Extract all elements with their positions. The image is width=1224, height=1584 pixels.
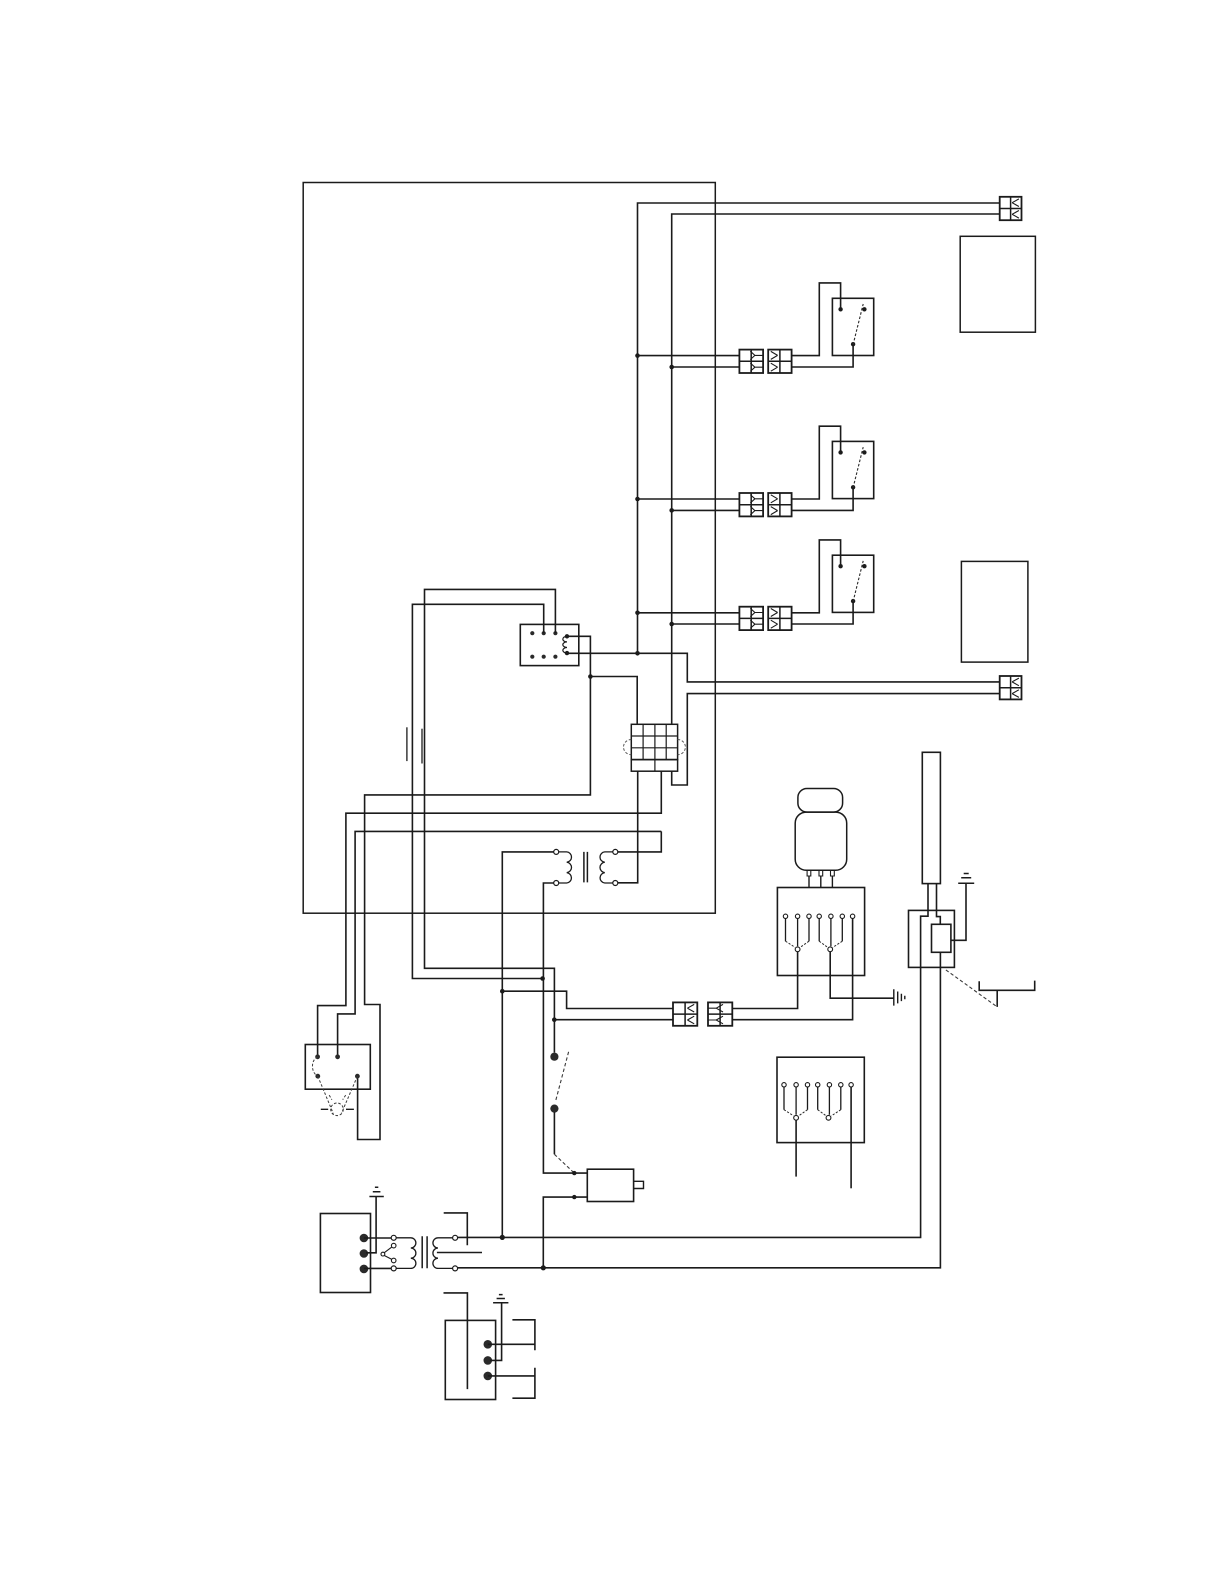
- ground GD4 (rotated): [894, 989, 905, 1005]
- wire switch row 2 feed lower: [672, 509, 740, 511]
- box B3 outer: [909, 910, 955, 967]
- switch SW3 box: [832, 555, 873, 612]
- wire T1 left-bottom down (to solenoid top): [543, 883, 587, 1173]
- switch SW1 lever: [853, 304, 863, 345]
- module box M1 (top right): [960, 236, 1035, 332]
- wire transformer RT to horn TM: [338, 831, 662, 1054]
- wire B1 fork-right to ground: [830, 952, 894, 999]
- block B2 box: [777, 1057, 864, 1142]
- wire B2 pin7 stub: [850, 1087, 852, 1188]
- horn cone left line: [318, 1076, 334, 1113]
- relay K2 pins: [530, 631, 534, 635]
- wire ignition feed branch to C6 upper: [502, 991, 673, 1008]
- shield mark a: [406, 727, 408, 761]
- wire switch row 1 feed lower: [672, 366, 740, 368]
- wire bus A (to connector C1 upper pin): [638, 203, 1000, 653]
- wire row 3 to switch common: [792, 601, 854, 624]
- distributor cap box: [445, 1320, 495, 1399]
- node junction coil + feed: [500, 1235, 505, 1240]
- shield mark b: [421, 729, 423, 764]
- breaker points pivot: [381, 1252, 385, 1256]
- node junction bus A row 3: [635, 611, 640, 616]
- wiring harness boundary box: [303, 183, 715, 914]
- wire row 1 to switch top: [792, 283, 841, 356]
- wire row 2 to switch top: [792, 426, 841, 499]
- pedal bracket: [979, 981, 1034, 1007]
- flasher F1 body: [795, 812, 847, 870]
- ignition coil secondary winding: [433, 1238, 453, 1269]
- transformer T1 left winding: [559, 852, 572, 883]
- distributor terminals: [484, 1340, 493, 1349]
- transformer T1 terminals: [554, 849, 559, 854]
- node junction key switch branch: [552, 1017, 557, 1022]
- node junction coil - feed: [541, 1265, 546, 1270]
- module box M2 (mid right): [961, 561, 1028, 662]
- wire S4 bottom to solenoid node: [553, 1112, 555, 1154]
- switch SW3 lever: [853, 561, 863, 602]
- wire W-B (relay pin to coil circuit): [412, 604, 543, 978]
- wire grid mid bottom (to horn TL): [318, 771, 662, 1054]
- wire key switch branch to C6 lower: [554, 1019, 673, 1021]
- wire grid col1 bottom to ignition transformer: [618, 771, 638, 883]
- wire switch row 2 feed upper: [638, 498, 740, 500]
- horn relay H1 box: [305, 1045, 370, 1090]
- node junction bus A row 2: [635, 497, 640, 502]
- horn relay coil arc: [312, 1057, 317, 1076]
- connector C3b (male half): [768, 607, 791, 630]
- wire R1 right leg: [937, 884, 941, 925]
- horn cone right line: [342, 1076, 358, 1113]
- connector C1b (male half): [768, 350, 791, 373]
- distributor rotor lead: [444, 1293, 468, 1389]
- wire battery top to points: [364, 1237, 391, 1239]
- wire row 3 to switch top: [792, 540, 841, 613]
- block B1 box: [777, 888, 864, 976]
- wire GD2 stem: [490, 1303, 502, 1361]
- connector C6a (2x2 chevron): [673, 1002, 697, 1025]
- wire B3 resistor out to coil -: [458, 952, 941, 1268]
- ground GD2: [493, 1295, 508, 1303]
- switch SW3 terminals: [838, 564, 842, 568]
- block B2 fork right: [818, 1087, 841, 1115]
- connector C5 (mid right, 2x2 chevron): [1000, 676, 1022, 699]
- block B2 pin circles: [782, 1083, 786, 1087]
- node junction bus A / coil bottom: [635, 651, 640, 656]
- ignition coil primary winding: [396, 1238, 416, 1269]
- wire switch row 3 feed upper: [638, 612, 740, 614]
- node junction ignition feed: [500, 989, 505, 994]
- connector C1 (top right pair half, 2x2 chevron): [1000, 197, 1022, 220]
- wire W-A (relay pin to key switch): [425, 589, 556, 1052]
- battery BAT box: [320, 1214, 370, 1293]
- battery terminals: [360, 1234, 369, 1243]
- node junction W-B: [540, 976, 545, 981]
- spark plug bracket 1: [512, 1320, 535, 1350]
- block B1 pin circles: [783, 914, 787, 918]
- switch SW1 box: [832, 298, 873, 355]
- wire row 1 to switch common: [792, 344, 854, 367]
- node junction bus B row 1: [669, 365, 674, 370]
- wire solenoid bottom feed: [543, 1197, 587, 1268]
- solenoid SL1 plunger: [634, 1181, 644, 1188]
- ground GD1: [369, 1187, 383, 1196]
- wire relay coil bottom to connector C5 upper: [569, 653, 1000, 682]
- wire B3 to ground GD3: [951, 883, 966, 940]
- connector G1 side arcs: [623, 740, 685, 755]
- node solenoid top tap: [572, 1171, 576, 1175]
- accelerator link dashed pointer: [946, 970, 997, 1007]
- ground GD3: [958, 874, 974, 884]
- horn diaphragm circle: [331, 1103, 344, 1116]
- connector C2a (female half): [739, 493, 763, 516]
- wire coil-top branch down (to horn circuit): [358, 677, 591, 1140]
- ballast bar R1: [922, 752, 940, 883]
- wire bus B (to connector C1 lower pin): [672, 214, 1000, 724]
- wire C6 lower to block B1 pin7: [732, 919, 852, 1020]
- flasher F1 pins: [807, 870, 834, 876]
- node solenoid bottom tap: [572, 1195, 576, 1199]
- wire T1 left-top down (ignition feed): [502, 852, 553, 1238]
- horn relay terminals: [315, 1054, 320, 1059]
- transformer T1 core: [584, 852, 588, 883]
- spark plug bracket 2: [512, 1368, 535, 1398]
- wire relay coil top to grid: [569, 636, 637, 724]
- wire R1 left leg to coil +: [458, 884, 928, 1238]
- wire S4 link diagonal: [554, 1154, 574, 1173]
- relay K2 coil: [563, 636, 567, 653]
- ignition coil output terminals: [453, 1235, 458, 1240]
- spark lead bracket HT: [444, 1213, 468, 1245]
- connector C6b (2x2 chevron): [708, 1002, 732, 1025]
- flasher F1 cap: [798, 789, 843, 813]
- transformer T1 right winding: [600, 852, 613, 883]
- switch SW2 box: [832, 441, 873, 498]
- block B1 fork right: [819, 919, 842, 947]
- ignition coil core: [422, 1236, 427, 1268]
- solenoid SL1 body: [587, 1169, 633, 1201]
- wire distributor bottom to plug 2: [488, 1375, 535, 1377]
- switch SW1 terminals: [838, 307, 842, 311]
- node junction bus A row 1: [635, 353, 640, 358]
- breaker points contacts: [391, 1235, 396, 1240]
- block B1 fork left: [786, 919, 810, 947]
- spark gap tap: [437, 1252, 482, 1254]
- horn side dashes: [321, 1108, 354, 1110]
- node junction coil-top branch: [588, 674, 593, 679]
- connector C2b (male half): [768, 493, 791, 516]
- wire row 2 to switch common: [792, 487, 854, 510]
- switch S4 lever: [555, 1052, 568, 1102]
- connector C3a (female half): [739, 607, 763, 630]
- block B2 fork left: [784, 1087, 808, 1115]
- wire B2 fork-left stub: [795, 1120, 797, 1176]
- switch S4 contacts: [550, 1053, 558, 1061]
- connector C1a (female half): [739, 350, 763, 373]
- connector G1 grid (ignition switch connector)): [631, 724, 677, 759]
- wire distributor top to plug 1: [488, 1343, 535, 1345]
- wire switch row 3 feed lower: [672, 623, 740, 625]
- wire GD1 stem to battery mid: [366, 1197, 376, 1253]
- node junction bus B row 3: [669, 622, 674, 627]
- wire C6 upper to block B1 fork: [732, 952, 797, 1009]
- node junction bus B row 2: [669, 508, 674, 513]
- wire switch row 1 feed upper: [638, 355, 740, 357]
- box B3 inner resistor: [932, 924, 951, 952]
- switch SW2 terminals: [838, 450, 842, 454]
- switch SW2 lever: [853, 447, 863, 488]
- wire connector C5 lower to grid bottom: [672, 694, 1000, 785]
- relay K2 box: [520, 624, 579, 665]
- horn inner ticks: [329, 1095, 346, 1100]
- wire battery bottom to points: [364, 1267, 391, 1269]
